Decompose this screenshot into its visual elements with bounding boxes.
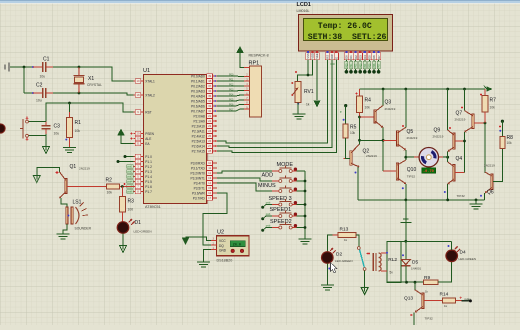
svg-text:D1: D1	[135, 220, 142, 226]
wire C2 to crystal bottom node	[53, 92, 79, 94]
svg-text:P3.0/RXD: P3.0/RXD	[191, 161, 206, 165]
svg-text:P2.5/A13: P2.5/A13	[192, 139, 205, 143]
svg-text:X1: X1	[88, 76, 94, 82]
LED D1	[117, 222, 129, 234]
svg-text:RST: RST	[145, 110, 151, 114]
svg-text:P2.6/A14: P2.6/A14	[192, 144, 205, 148]
svg-text:23: 23	[208, 124, 212, 128]
svg-text:TIP32: TIP32	[425, 317, 434, 321]
transistor Q2	[350, 151, 352, 165]
svg-text:10k: 10k	[107, 191, 113, 195]
wire Q6 collector up to R7/Q7 node	[484, 123, 486, 173]
svg-text:13: 13	[208, 176, 212, 180]
svg-text:26.0: 26.0	[233, 243, 241, 247]
U1 pin end marks	[214, 75, 216, 77]
svg-text:5v: 5v	[390, 271, 394, 275]
Q4 emitter to bottom rail	[447, 184, 449, 200]
svg-text:psb4: psb4	[127, 182, 133, 184]
svg-text:P1.2: P1.2	[145, 165, 152, 169]
svg-text:P03: P03	[229, 88, 234, 91]
svg-text:2N2219: 2N2219	[484, 164, 495, 168]
svg-text:2N2219: 2N2219	[455, 118, 466, 122]
svg-text:DS18B20: DS18B20	[217, 259, 233, 263]
svg-text:TIP32: TIP32	[407, 175, 416, 179]
Q13 emitter down	[413, 312, 415, 325]
svg-text:33: 33	[208, 104, 212, 108]
svg-text:P3.1/TXD: P3.1/TXD	[191, 166, 206, 170]
wire C1 to crystal node	[53, 66, 79, 68]
svg-text:Q9: Q9	[434, 128, 441, 134]
svg-text:P2.7/A15: P2.7/A15	[192, 149, 205, 153]
transistor Q1 2N2219	[65, 179, 67, 194]
svg-text:P1.7: P1.7	[145, 190, 152, 194]
svg-text:R2: R2	[106, 178, 113, 184]
svg-text:VEE: VEE	[315, 53, 319, 58]
Q4 collector from motor node	[447, 157, 449, 162]
svg-text:P0.6/AD6: P0.6/AD6	[191, 104, 205, 108]
svg-text:psb6: psb6	[127, 192, 133, 194]
svg-text:P2.2/A10: P2.2/A10	[192, 124, 205, 128]
svg-text:-0.70: -0.70	[423, 170, 434, 174]
partial LED at left edge	[0, 124, 5, 133]
svg-text:P1.0: P1.0	[145, 155, 152, 159]
svg-text:2N2219: 2N2219	[433, 135, 444, 139]
svg-text:LCD1: LCD1	[297, 2, 311, 8]
svg-text:ALE: ALE	[145, 137, 151, 141]
svg-text:U1: U1	[143, 68, 150, 74]
svg-text:32: 32	[208, 109, 212, 113]
svg-text:R5: R5	[350, 125, 357, 131]
transistor Q13 TIP32	[422, 293, 424, 309]
svg-text:psb: psb	[266, 223, 271, 227]
resistor R9	[423, 280, 438, 285]
ground arrow below C3	[43, 147, 50, 154]
svg-text:12: 12	[208, 171, 212, 175]
U1 left pins	[134, 80, 144, 82]
svg-text:m: m	[340, 111, 343, 113]
Q1 emitter to sounder	[61, 198, 67, 207]
relay top rail	[401, 240, 452, 242]
svg-text:P0.2/AD2: P0.2/AD2	[191, 84, 205, 88]
wire Q2C node to Q5/Q10 base column	[360, 139, 384, 141]
svg-text:VSS: VSS	[306, 53, 310, 58]
svg-text:10: 10	[208, 161, 212, 165]
wire VEE down	[316, 60, 318, 100]
R14 right lead + net label	[455, 300, 461, 302]
power arrow right end	[487, 86, 493, 91]
svg-text:2N2219: 2N2219	[79, 167, 90, 171]
svg-text:D0: D0	[345, 55, 349, 59]
svg-text:P1.5: P1.5	[145, 180, 152, 184]
svg-text:10u: 10u	[36, 99, 42, 103]
U2 pin leads	[211, 239, 217, 241]
svg-text:E: E	[335, 57, 339, 59]
svg-text:36: 36	[208, 89, 212, 93]
U2 GND wire	[204, 250, 211, 262]
svg-text:P03: P03	[359, 63, 362, 68]
mouse cursor	[331, 263, 338, 273]
svg-text:LED-GREEN: LED-GREEN	[335, 259, 353, 263]
svg-text:P3.3/INT1: P3.3/INT1	[190, 176, 205, 180]
svg-text:D5: D5	[412, 260, 418, 266]
respack RP1	[249, 66, 261, 117]
node R4/Q3 base	[358, 116, 361, 119]
reset push button	[27, 121, 46, 123]
Q13 base to R14	[424, 300, 443, 302]
svg-text:P00: P00	[346, 63, 349, 68]
wire R13 to D2	[327, 235, 332, 252]
svg-text:P0.0/AD0: P0.0/AD0	[191, 74, 205, 78]
P1 net labels	[127, 165, 134, 169]
svg-text:R3: R3	[128, 199, 135, 205]
wire R4 node down to Q2 collector	[359, 117, 361, 144]
svg-text:D4: D4	[460, 250, 466, 256]
window top edge strip	[0, 0, 520, 1]
svg-text:Q4: Q4	[456, 156, 463, 162]
svg-text:27: 27	[208, 144, 212, 148]
svg-text:18: 18	[136, 93, 140, 97]
U1 right pins	[207, 75, 217, 77]
svg-text:2N2219: 2N2219	[407, 136, 418, 140]
wire Q3 emitter / base column	[382, 128, 384, 171]
ground on bottom rail	[475, 200, 477, 204]
svg-text:P05: P05	[369, 63, 372, 68]
svg-text:SOUNDER: SOUNDER	[75, 227, 92, 231]
svg-text:C1: C1	[43, 57, 50, 63]
Q4 base lead	[455, 172, 465, 174]
svg-text:C2: C2	[36, 83, 43, 89]
svg-text:R4: R4	[365, 98, 372, 104]
svg-text:SPEED1: SPEED1	[270, 207, 292, 213]
svg-text:P1.6: P1.6	[145, 185, 152, 189]
ground below buttons	[304, 236, 306, 239]
svg-text:35: 35	[208, 94, 212, 98]
bottom rail	[358, 199, 484, 201]
Q6 base to R8	[493, 148, 503, 181]
svg-text:P3.2/INT0: P3.2/INT0	[190, 171, 205, 175]
capacitor C2	[32, 92, 34, 94]
svg-text:P2.1/A9: P2.1/A9	[193, 119, 205, 123]
Q13 collector wire	[414, 282, 416, 290]
wire C3 bottom to ground arrow	[45, 134, 47, 147]
Q7 base lead	[474, 122, 485, 124]
motor	[419, 148, 438, 167]
svg-text:22: 22	[208, 119, 212, 123]
svg-text:38: 38	[208, 79, 212, 83]
wire VSS down	[307, 60, 309, 75]
wire RW from P2.6	[217, 60, 332, 148]
Q7 emitter column to Q9/Q4 bases	[464, 132, 466, 173]
svg-text:10k: 10k	[365, 106, 371, 110]
svg-text:SETH:38 SETL:26: SETH:38 SETL:26	[308, 33, 387, 42]
LS1 to ground	[63, 224, 67, 234]
Q9 base lead	[455, 140, 465, 142]
svg-text:28: 28	[208, 149, 212, 153]
svg-text:2N2219: 2N2219	[366, 154, 377, 158]
svg-text:CRYSTAL: CRYSTAL	[87, 83, 102, 87]
top power rail	[360, 88, 486, 90]
svg-text:P01: P01	[229, 78, 234, 81]
wires P0 bus to RP1	[217, 75, 244, 78]
svg-text:P06: P06	[373, 63, 376, 68]
svg-text:P3.7/RD: P3.7/RD	[193, 196, 206, 200]
svg-text:psb1: psb1	[127, 167, 133, 169]
svg-text:PSEN: PSEN	[145, 132, 154, 136]
R2 to P1.6 pin	[120, 186, 134, 188]
svg-text:P1.1: P1.1	[145, 160, 152, 164]
Q2 collector wire	[358, 140, 360, 144]
ground below R1	[63, 147, 76, 149]
Q7 collector to rail	[464, 89, 466, 111]
svg-text:R1: R1	[75, 120, 82, 126]
svg-text:Q3: Q3	[385, 100, 392, 106]
svg-text:P04: P04	[364, 63, 367, 68]
transistor Q10 TIP32	[396, 163, 398, 180]
svg-text:P05: P05	[229, 98, 234, 101]
Q10 base lead	[383, 170, 396, 172]
svg-text:10k: 10k	[507, 141, 513, 145]
svg-text:19: 19	[136, 79, 140, 83]
svg-text:psb: psb	[266, 200, 271, 204]
Q2 base lead	[344, 157, 350, 159]
capacitor C3	[45, 122, 47, 126]
sensor U2 DS18B20	[217, 236, 249, 256]
wire P1.1 stub	[118, 161, 134, 163]
svg-text:D2: D2	[336, 252, 342, 258]
svg-text:P3.4/T0: P3.4/T0	[194, 181, 205, 185]
resistor R1	[69, 103, 71, 112]
capacitor C1	[32, 66, 34, 68]
wire P1.0 stub	[125, 156, 134, 158]
RP1 pin1 lead	[244, 67, 250, 69]
svg-text:LED-GREEN: LED-GREEN	[134, 230, 152, 234]
svg-text:psb3: psb3	[127, 177, 133, 179]
Q2 emitter down to bottom rail	[357, 167, 359, 200]
EA power arrow	[121, 136, 134, 144]
U2 VCC wire to ground arrow	[186, 237, 212, 240]
svg-text:RW: RW	[330, 54, 334, 59]
R5 bottom to Q2 base	[346, 138, 350, 158]
svg-text:P02: P02	[355, 63, 358, 68]
svg-text:P04: P04	[229, 93, 234, 96]
reset node rail	[46, 103, 134, 122]
svg-text:Q13: Q13	[404, 296, 413, 302]
svg-text:P1.3: P1.3	[145, 170, 152, 174]
wire E from P2.7	[217, 60, 336, 153]
svg-text:XTAL1: XTAL1	[145, 79, 155, 83]
svg-text:psb: psb	[266, 212, 271, 216]
LED D4	[446, 250, 458, 262]
D1 to ground arrow	[122, 233, 124, 245]
relay RL2 box	[387, 241, 401, 282]
transistor Q9	[453, 133, 455, 149]
svg-text:21: 21	[208, 114, 212, 118]
svg-text:C3: C3	[54, 124, 61, 130]
svg-text:16: 16	[208, 191, 212, 195]
relay bottom rail	[401, 281, 423, 283]
svg-text:P2.4/A12: P2.4/A12	[192, 134, 205, 138]
svg-text:25: 25	[208, 134, 212, 138]
resistor R5	[344, 104, 347, 107]
svg-text:P01: P01	[350, 63, 353, 68]
svg-text:R9: R9	[424, 275, 430, 281]
Q10 collector from motor node	[405, 157, 407, 160]
RV1 bottom to ground	[297, 103, 299, 105]
svg-text:AT89C51: AT89C51	[145, 205, 161, 209]
svg-text:XTAL2: XTAL2	[145, 93, 155, 97]
svg-text:P00: P00	[229, 73, 234, 76]
D2 to ground	[326, 263, 328, 284]
svg-text:Q10: Q10	[407, 167, 417, 173]
svg-text:Q1: Q1	[70, 164, 77, 170]
svg-text:R14: R14	[440, 292, 449, 298]
VSS/VDD rail to RV1	[298, 75, 313, 82]
svg-text:Temp: 26.0C: Temp: 26.0C	[318, 22, 372, 31]
svg-text:P3.6/WR: P3.6/WR	[192, 191, 205, 195]
svg-text:17: 17	[208, 196, 212, 200]
wire gnd to C1/C2 node	[10, 66, 33, 68]
resistor R7	[484, 89, 486, 96]
svg-text:P0.3/AD3: P0.3/AD3	[191, 89, 205, 93]
LCD LM016L frame	[299, 15, 393, 52]
svg-text:P0.4/AD4: P0.4/AD4	[191, 94, 205, 98]
svg-text:DQ: DQ	[219, 244, 224, 248]
svg-text:P00: P00	[331, 63, 336, 66]
svg-text:D1: D1	[349, 55, 353, 59]
svg-text:2N2219: 2N2219	[385, 107, 396, 111]
svg-text:24: 24	[208, 129, 212, 133]
svg-text:29: 29	[136, 132, 140, 136]
svg-text:ADD: ADD	[262, 173, 274, 179]
svg-text:Q5: Q5	[407, 129, 414, 135]
svg-text:U2: U2	[217, 230, 224, 236]
svg-text:10k: 10k	[490, 106, 496, 110]
svg-text:1k: 1k	[306, 103, 310, 107]
svg-text:D7: D7	[377, 55, 381, 59]
R9 to D4	[438, 262, 452, 282]
wire crystal to XTAL1	[79, 67, 134, 81]
buttons ground bus	[304, 171, 306, 236]
switch bottom to arrow	[364, 270, 366, 287]
svg-text:11: 11	[208, 166, 211, 170]
svg-text:R7: R7	[490, 98, 497, 104]
svg-text:D6: D6	[372, 55, 376, 59]
svg-text:RS: RS	[326, 55, 330, 59]
svg-text:30: 30	[136, 137, 140, 141]
svg-text:26: 26	[208, 139, 212, 143]
svg-text:Q7: Q7	[456, 111, 463, 117]
svg-text:P0.5/AD5: P0.5/AD5	[191, 99, 205, 103]
svg-text:34: 34	[208, 99, 212, 103]
resistor R2	[107, 184, 120, 189]
svg-text:P2.3/A11: P2.3/A11	[192, 129, 205, 133]
Q1 collector wire + ground arrow	[37, 167, 60, 175]
wire Q3 collector to rail	[382, 89, 384, 105]
svg-text:LM016L: LM016L	[297, 9, 310, 13]
svg-text:LS1: LS1	[73, 200, 82, 206]
relay coil	[372, 253, 374, 271]
svg-text:P06: P06	[229, 103, 234, 106]
U2 DQ wire to P3.6	[203, 193, 227, 245]
LED D2	[322, 252, 334, 264]
svg-text:37: 37	[208, 84, 212, 88]
wire down to C2	[23, 67, 25, 93]
svg-text:39: 39	[208, 74, 212, 78]
svg-text:P0.7/AD7: P0.7/AD7	[191, 109, 205, 113]
wire RS from P2.5	[217, 60, 328, 144]
Q9 collector to rail	[447, 89, 449, 130]
wire MINUS to P3.4	[217, 183, 272, 191]
svg-text:Q6: Q6	[487, 190, 494, 196]
resistor R3	[121, 187, 123, 197]
svg-text:RESPACK-8: RESPACK-8	[249, 54, 269, 58]
svg-text:VCC: VCC	[219, 239, 226, 243]
ground terminal left	[8, 63, 10, 72]
motor rpm display	[422, 168, 436, 173]
svg-text:14: 14	[208, 181, 212, 185]
wire crystal to XTAL2	[79, 93, 134, 95]
svg-text:D4: D4	[363, 55, 367, 59]
svg-text:LED-GREEN: LED-GREEN	[459, 257, 477, 261]
wire MODE to P3.2	[217, 171, 272, 173]
transistor Q7	[472, 114, 474, 129]
Q1 base to R2	[67, 186, 106, 188]
svg-text:100: 100	[128, 208, 134, 212]
sounder LS1	[66, 207, 68, 224]
svg-text:MODE: MODE	[277, 162, 294, 168]
Q5 base lead	[383, 139, 396, 141]
svg-text:D2: D2	[354, 55, 358, 59]
Q5 collector to rail	[405, 89, 407, 127]
svg-text:psb2: psb2	[127, 172, 133, 174]
svg-text:10u: 10u	[40, 75, 46, 79]
Q5 emitter to motor node	[405, 150, 407, 157]
resistor R8	[501, 120, 504, 123]
diode D5 1N4001	[405, 241, 407, 259]
svg-text:P07: P07	[378, 63, 381, 68]
svg-text:10k: 10k	[350, 131, 356, 135]
svg-text:RL2: RL2	[388, 257, 397, 263]
LCD screen	[304, 19, 388, 41]
svg-text:RV1: RV1	[304, 89, 314, 95]
pot RV1	[295, 82, 301, 103]
svg-text:R13: R13	[340, 227, 349, 233]
svg-text:P3.5/T1: P3.5/T1	[194, 186, 205, 190]
D4 top wire	[451, 241, 453, 250]
LCD pins	[307, 51, 309, 53]
svg-text:D5: D5	[368, 55, 372, 59]
Q6 emitter to rail end	[483, 193, 485, 200]
transistor Q6	[491, 174, 493, 190]
Q10 emitter to bottom rail	[405, 184, 407, 200]
speed buttons stub labels	[266, 204, 272, 206]
VEE ground arrow	[314, 101, 320, 108]
svg-text:P07: P07	[229, 108, 234, 111]
chip U1 AT89C51	[143, 75, 206, 204]
svg-text:D3: D3	[358, 55, 362, 59]
svg-text:GND: GND	[219, 248, 227, 252]
svg-text:10u: 10u	[54, 132, 60, 136]
switch	[356, 235, 359, 246]
wire VDD down	[312, 60, 314, 75]
svg-text:P2.0/A8: P2.0/A8	[193, 114, 205, 118]
svg-text:P02: P02	[229, 83, 234, 86]
svg-text:10k: 10k	[75, 129, 81, 133]
svg-text:15: 15	[208, 186, 212, 190]
resistor R4	[359, 89, 361, 96]
svg-text:1N4001: 1N4001	[411, 267, 422, 271]
svg-text:MINUS: MINUS	[258, 183, 276, 189]
